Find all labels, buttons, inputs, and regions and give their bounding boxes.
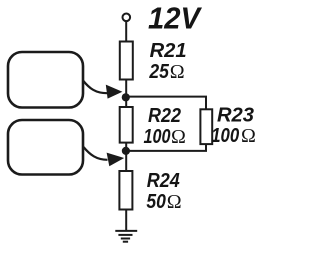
wire terminal to R21 bbox=[125, 21, 127, 42]
svg-text:R24: R24 bbox=[147, 170, 180, 192]
wire R23 to node B branch (bottom) bbox=[126, 144, 206, 151]
leader arrow 2 (box 2 to node B) bbox=[84, 147, 125, 166]
wire R21 to node A bbox=[125, 80, 127, 98]
terminal 12V bbox=[123, 13, 131, 21]
value 50 ohm (R24) bbox=[146, 191, 181, 213]
svg-text:12V: 12V bbox=[148, 1, 202, 36]
wire R24 to ground bbox=[125, 210, 127, 232]
svg-text:R21: R21 bbox=[150, 40, 187, 62]
value 25 ohm (R21) bbox=[149, 61, 185, 83]
wire node A to R22 bbox=[125, 97, 127, 107]
node A junction dot bbox=[122, 93, 130, 101]
resistor R23 bbox=[200, 109, 212, 144]
svg-text:R22: R22 bbox=[148, 105, 181, 127]
resistor R21 bbox=[120, 42, 133, 80]
leader arrow 1 (box 1 to node A) bbox=[83, 81, 122, 99]
svg-text:100: 100 bbox=[211, 125, 239, 147]
svg-text:Ω: Ω bbox=[171, 126, 186, 148]
node B junction dot bbox=[122, 147, 130, 155]
resistor R22 bbox=[120, 107, 133, 143]
svg-text:25: 25 bbox=[149, 61, 170, 83]
svg-text:Ω: Ω bbox=[170, 61, 185, 83]
value 100 ohm (R23) bbox=[211, 125, 256, 147]
svg-text:Ω: Ω bbox=[167, 191, 182, 213]
ground bbox=[115, 231, 137, 242]
wire node A to R23 branch (top) bbox=[126, 97, 206, 110]
svg-text:50: 50 bbox=[146, 191, 166, 213]
svg-text:Ω: Ω bbox=[241, 125, 256, 147]
resistor R24 bbox=[119, 171, 132, 210]
value 100 ohm (R22) bbox=[144, 126, 186, 148]
svg-text:R23: R23 bbox=[217, 104, 254, 126]
callout box 1 bbox=[8, 52, 83, 108]
callout box 2 bbox=[8, 120, 83, 175]
wire node B to R24 bbox=[125, 151, 127, 171]
svg-text:100: 100 bbox=[144, 126, 171, 148]
wire R22 to node B bbox=[125, 143, 127, 151]
